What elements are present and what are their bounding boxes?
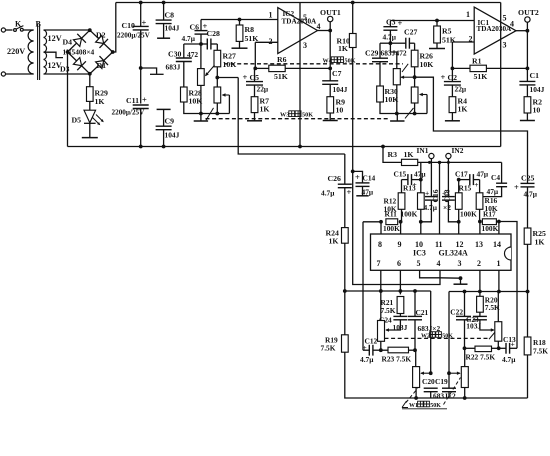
wiper arrow pot W3 left [223,94,230,96]
capacitor C23 [479,312,481,316]
wire bottom rail [68,146,501,148]
svg-text:103J: 103J [466,322,481,331]
svg-text:4.7μ: 4.7μ [360,355,374,364]
svg-text:D4: D4 [63,38,73,47]
wire secondary bottom to bridge [44,73,90,75]
svg-text:OUT1: OUT1 [320,8,341,17]
resistor R20 [479,292,481,297]
svg-text:100K: 100K [401,210,418,219]
resistor R2 [526,85,528,97]
capacitor C11 [140,68,142,104]
svg-text:1K: 1K [260,105,270,114]
svg-text:5: 5 [417,259,421,268]
bass dashed tick left [406,389,418,403]
ground under R8 [239,41,241,48]
wire R30 bottom row [380,102,427,114]
terminal OUT2 [516,30,527,32]
wiper tick W4 right [402,64,408,72]
wire IC3 pin2 lead [479,270,481,291]
svg-text:W4: W4 [323,58,332,65]
potentiometer W2 left gang [380,291,382,321]
wire OUT2 down [526,31,528,69]
svg-text:C22: C22 [450,308,463,317]
LED D5 [89,101,91,110]
resistor R23 [381,349,388,351]
svg-text:1K: 1K [404,150,414,159]
svg-text:R6: R6 [277,55,287,64]
svg-text:683J×2: 683J×2 [433,392,456,401]
svg-text:K: K [15,20,22,29]
potentiometer right gang W3 [414,77,416,87]
wiper arrow W1 left [429,371,433,375]
svg-text:47μ: 47μ [487,187,499,196]
svg-text:1: 1 [466,10,470,19]
svg-text:D2: D2 [96,31,106,40]
wire R28 bottom row [184,102,230,114]
svg-text:7.5K: 7.5K [381,306,396,315]
potentiometer left gang W4 [200,44,202,69]
potentiometer W1 right gang [461,367,468,388]
wire IC3 pin9 lead [400,222,402,234]
svg-text:+: + [398,18,403,28]
wiper tick W3 right [405,108,414,118]
wire IC3 pin6 lead [399,270,401,291]
svg-text:C9: C9 [165,116,175,125]
node 220V plug [1,28,5,32]
center reference stub [141,68,157,74]
wire feedback bus to pin4 [353,171,440,284]
junction bridge right [111,50,115,54]
svg-text:+: + [514,182,519,192]
svg-text:4.7μ: 4.7μ [424,203,438,212]
wire IC3 pin11 lead [439,162,441,234]
svg-text:C8: C8 [165,10,175,19]
svg-text:100K: 100K [460,210,477,219]
capacitor C30 [184,43,201,45]
svg-text:3: 3 [503,41,507,50]
svg-text:4: 4 [510,20,514,29]
svg-text:R3: R3 [388,150,398,159]
wire plug to switch [6,29,13,31]
junction C3 bottom [389,41,393,45]
wire IC2 pin3 to bottom rail [298,145,302,149]
wire IC3 pin7 lead [380,270,382,291]
svg-text:D5: D5 [72,116,82,125]
center tap stub [44,52,63,57]
svg-text:C18: C18 [442,189,451,202]
svg-text:R17: R17 [483,210,496,219]
svg-text:4.7μ: 4.7μ [502,355,516,364]
svg-text:+: + [243,72,248,82]
svg-text:2: 2 [269,37,273,46]
svg-text:5: 5 [303,13,307,22]
svg-text:4: 4 [317,22,321,31]
svg-text:B: B [36,20,42,29]
terminal OUT1 [318,30,331,32]
ground under C8 [157,37,170,39]
svg-text:R23 7.5K: R23 7.5K [382,354,412,363]
svg-text:11: 11 [435,240,443,249]
wire loop to pin3 [440,277,461,279]
svg-text:104J: 104J [165,130,180,139]
wiper tick W3 left [206,108,214,120]
svg-text:1K: 1K [338,44,348,53]
ground under pot row right [396,114,398,121]
resistor R25 [524,228,531,244]
svg-text:50K: 50K [430,403,441,409]
svg-text:6: 6 [397,259,401,268]
wire IC3 pin14 lead [498,222,500,235]
bridge diode D1 [90,52,113,74]
transformer B primary winding [28,30,34,74]
wire tone bus right [448,292,450,374]
svg-text:C25: C25 [521,174,535,183]
svg-text:×2: ×2 [443,203,451,212]
svg-text:10K: 10K [420,60,434,69]
svg-text:OUT2: OUT2 [518,8,539,17]
wire bridge left to bottom rail [67,52,69,147]
wire IC1 pin1 [390,20,474,22]
junction bridge top [88,28,92,32]
svg-text:GL324A: GL324A [439,248,469,257]
svg-text:+: + [511,340,515,349]
svg-text:IN1: IN1 [417,146,429,155]
svg-text:R22 7.5K: R22 7.5K [466,352,496,361]
svg-text:C14: C14 [363,174,376,183]
svg-text:3: 3 [458,259,462,268]
capacitor C10 [139,1,143,5]
svg-text:51K: 51K [274,72,288,81]
svg-text:2200μ/25V: 2200μ/25V [117,31,151,39]
svg-text:683J: 683J [166,63,181,72]
resistor R13 [420,180,422,193]
wire +V top rail [116,2,501,4]
resistor R21 [399,291,401,294]
volume pot W4 dashed link [224,63,403,65]
junction C10-C11 midpoint [139,66,143,70]
ground under R7 [254,113,256,121]
svg-text:C17: C17 [455,169,468,178]
svg-text:C27: C27 [404,28,418,37]
bridge diode D3 [68,52,90,74]
capacitor C16 [430,162,432,196]
ground under R5 [436,43,438,48]
junction C22 R22 [463,346,467,350]
svg-text:C4: C4 [491,173,500,182]
wire IC2 pin1 [201,19,278,21]
capacitor C29 [380,42,390,44]
wire R17 to C13 feedback [496,222,517,349]
svg-text:47μ: 47μ [477,169,489,178]
svg-text:100K: 100K [482,224,499,233]
wire IC3 pin13 lead [479,222,481,235]
svg-text:10: 10 [415,240,423,249]
wire treble feed to C25 [415,77,528,183]
op-amp IC1 TDA2030A [474,7,516,54]
svg-text:51K: 51K [474,72,488,81]
wire input bus [418,161,502,163]
transformer secondary winding lower 12V [44,52,47,74]
resistor R27 bottom junction [216,67,218,78]
svg-text:13: 13 [475,240,483,249]
capacitor C15 [420,162,422,179]
svg-text:12V: 12V [48,34,62,43]
svg-text:TDA2030A: TDA2030A [477,25,513,33]
potentiometer left gang W3 [216,78,218,88]
resistor R16 [479,180,481,193]
svg-text:2: 2 [477,259,481,268]
resistor R24 [342,228,349,244]
junction bridge bottom [88,72,92,76]
capacitor C12 [362,222,364,350]
svg-text:IC3: IC3 [413,248,426,257]
svg-text:IN2: IN2 [452,146,464,155]
svg-text:5: 5 [503,14,507,23]
svg-text:R11: R11 [385,210,398,219]
resistor R8 [238,18,242,22]
svg-text:104J: 104J [333,85,348,94]
svg-text:C11: C11 [126,96,139,105]
wire IC1 pin5 to +V [500,3,502,147]
ground under R9 [329,113,331,120]
junction C12 R23 [379,348,383,352]
svg-text:4.7μ: 4.7μ [182,34,196,43]
potentiometer W2 right gang [495,322,502,342]
terminal IN2 [446,153,451,158]
junction pin3 ground [459,276,463,280]
svg-text:+: + [142,95,147,105]
wire IC2 pin5 to +V [299,3,301,147]
svg-text:12: 12 [456,240,464,249]
wire IC3 pin5 pin4 loop [420,270,440,278]
svg-text:4: 4 [437,259,441,268]
svg-text:220V: 220V [7,47,25,56]
resistor R26 [414,43,416,50]
svg-text:47μ: 47μ [414,169,426,178]
junction C6 bottom [199,42,203,46]
resistor R7 [254,85,256,97]
svg-text:R8: R8 [245,25,255,34]
svg-text:C29: C29 [365,48,379,57]
wire IC3 pin1 lead [498,270,500,291]
svg-text:47μ: 47μ [362,187,374,196]
transformer core [37,24,39,80]
wire OUT1 down to zobel [329,31,331,69]
svg-text:8: 8 [378,240,382,249]
resistor R11 [363,221,381,223]
wire secondary top to bridge [44,29,90,31]
svg-text:W1: W1 [409,403,418,409]
terminal IN1 [429,153,434,158]
resistor R3 [381,145,385,149]
transformer secondary winding upper 12V [44,30,47,52]
svg-text:C7: C7 [332,69,342,78]
svg-text:TDA2030A: TDA2030A [282,18,318,26]
svg-text:1: 1 [497,259,501,268]
svg-text:22μ: 22μ [257,85,269,94]
svg-text:104J: 104J [530,85,545,94]
capacitor C13 [498,347,506,349]
wire IC3 pin10 lead [419,220,423,224]
resistor R12 [401,180,403,193]
resistor R27 [216,44,218,50]
svg-text:C21: C21 [416,308,429,317]
resistor R15 [458,180,460,193]
capacitor C19 [447,371,451,375]
capacitor C4 [501,162,503,183]
resistor R30 [377,86,384,102]
balance pot W3 dashed link [206,118,391,120]
capacitor C14 [352,48,354,172]
resistor R22 [465,347,476,349]
svg-text:3: 3 [303,41,307,50]
svg-text:R15: R15 [459,184,472,193]
svg-text:104J: 104J [165,24,180,33]
resistor R10 [351,1,355,5]
switch K [14,29,17,32]
svg-text:C30: C30 [168,50,182,59]
resistor R5 [435,19,439,23]
capacitor C8 [162,1,166,5]
resistor R29 [89,74,91,87]
capacitor C18 [447,162,449,196]
wire plug bottom to transformer [6,73,34,75]
svg-text:10: 10 [533,106,541,115]
bass dashed tick right [444,378,461,405]
svg-text:1K: 1K [535,238,545,247]
wire C20 drop [430,291,432,373]
svg-text:+: + [474,180,478,189]
wiper arrow pot W4 left [206,65,215,75]
svg-text:51K: 51K [442,36,456,45]
ground under C14 [356,195,368,197]
treble pot dashed link W2 [385,337,490,339]
svg-text:1K: 1K [329,237,339,246]
svg-text:1K: 1K [95,97,105,106]
svg-text:+: + [347,187,352,197]
ground under D5 [89,123,91,137]
svg-text:9: 9 [398,240,402,249]
wiper arrow W1 right [449,372,460,374]
svg-text:22μ: 22μ [455,85,467,94]
potentiometer W1 left gang [415,350,417,366]
svg-text:+: + [355,172,360,182]
wire bridge right to +V rail [113,3,116,53]
wire IC3 pin12 lead [458,222,460,234]
IC IC3 GL324A [371,234,512,270]
resistor R6 [255,41,277,43]
svg-text:683J: 683J [381,48,396,57]
bass label W1 [402,401,408,408]
resistor R17 [482,219,496,225]
svg-text:10K: 10K [223,60,237,69]
svg-text:C28: C28 [207,29,221,38]
resistor R18 [527,292,529,338]
svg-text:4.7μ: 4.7μ [524,189,538,198]
wiper arrow W2 right [480,320,494,330]
svg-text:C10: C10 [122,21,136,30]
svg-text:10: 10 [336,106,344,115]
wiper arrow W2 left [386,320,400,330]
capacitor C26 [344,154,346,184]
svg-text:D1: D1 [97,61,107,70]
svg-text:7.5K: 7.5K [533,347,548,356]
svg-text:7.5K: 7.5K [321,344,336,353]
svg-text:50K: 50K [345,58,356,65]
resistor R19 [344,291,346,335]
potentiometer right gang W4 [390,43,396,68]
resistor R9 [329,84,331,96]
svg-text:C15: C15 [394,169,407,178]
capacitor C24 [399,314,401,317]
resistor R26 bottom junction [414,67,416,77]
svg-text:W3: W3 [280,112,289,119]
svg-text:C16: C16 [431,189,440,202]
svg-text:C19: C19 [435,377,448,386]
resistor R4 [451,85,453,97]
wire IC3 pin8 lead [380,222,382,234]
svg-text:R5: R5 [442,27,452,36]
ground under pot row left [200,114,202,121]
svg-text:4.7μ: 4.7μ [321,189,335,198]
bridge diode D4 [68,30,90,52]
ground under R4 [451,113,453,121]
junction bridge left [66,50,70,54]
svg-text:C1: C1 [530,71,540,80]
svg-text:14: 14 [493,240,501,249]
ground under R2 [526,113,528,120]
wire switch to transformer [23,29,33,31]
capacitor C22 [464,292,466,317]
svg-text:50K: 50K [302,112,313,119]
bridge diode D2 [90,30,113,52]
svg-text:4.7μ: 4.7μ [383,33,397,42]
wire tone bus left [345,290,431,292]
svg-text:1K: 1K [458,105,468,114]
svg-text:100K: 100K [383,224,400,233]
svg-text:R1: R1 [472,57,482,66]
svg-text:7: 7 [377,259,381,268]
op-amp IC2 TDA2030A [278,8,318,54]
wiper arrow pot W3 right [420,94,427,96]
svg-text:1: 1 [269,11,273,20]
resistor R1 [452,41,474,43]
svg-text:C26: C26 [328,174,342,183]
ground IC3 pin3 [454,283,468,285]
svg-text:R13: R13 [403,184,416,193]
svg-text:C20: C20 [422,377,435,386]
svg-text:+: + [441,72,446,82]
wire balance node to C26 feed [217,77,238,79]
capacitor C9 [157,108,171,110]
wiper arrow pot W4 right [401,76,415,78]
resistor R28 [181,87,188,102]
capacitor C21 [414,291,416,316]
svg-text:D3: D3 [60,65,70,74]
